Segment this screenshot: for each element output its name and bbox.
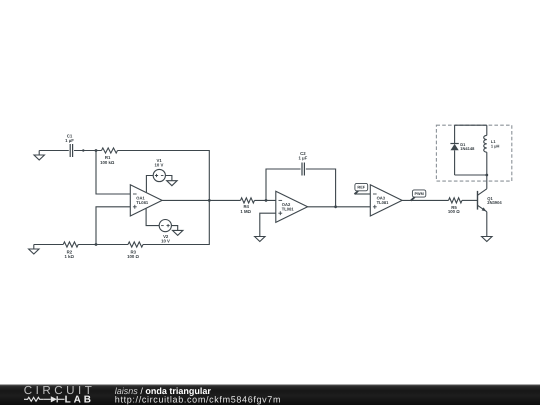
resistor R5	[448, 198, 462, 214]
wire (OA2 non-inverting input to ground)	[260, 213, 276, 236]
svg-text:TL081: TL081	[136, 200, 149, 205]
transistor Q1	[478, 189, 503, 212]
ground	[29, 245, 39, 255]
svg-text:1 µF: 1 µF	[65, 138, 74, 143]
net flag REF	[355, 183, 368, 194]
op-amp OA2	[276, 191, 308, 222]
ground	[173, 230, 183, 235]
wire (R5 to Q1 base)	[462, 199, 478, 201]
wire (C2 to OA2 output)	[306, 169, 336, 207]
wire (junction down to OA1 inverting input)	[96, 151, 130, 195]
svg-text:1 MΩ: 1 MΩ	[240, 209, 251, 214]
svg-text:100 Ω: 100 Ω	[127, 254, 139, 259]
resistor R4	[240, 198, 254, 214]
wire (box bottom: D1 to L1/collector node)	[455, 174, 487, 176]
wire (R1 to feedback corner)	[118, 151, 210, 201]
svg-text:100 kΩ: 100 kΩ	[100, 160, 115, 165]
node (OA2 output junction)	[334, 205, 337, 208]
node (OA1 output junction)	[208, 199, 211, 202]
ground	[167, 181, 177, 186]
svg-text:TL081: TL081	[282, 207, 295, 212]
inductor L1	[484, 125, 500, 175]
svg-text:REF: REF	[357, 185, 365, 190]
op-amp OA1	[130, 185, 162, 216]
wire (R4 to OA2 inverting input)	[255, 199, 276, 201]
wire (OA2 output to OA3 non-inverting input)	[308, 206, 371, 208]
wire	[74, 150, 102, 152]
op-amp OA3	[370, 185, 402, 216]
svg-text:PWM: PWM	[414, 192, 423, 196]
svg-text:1N4148: 1N4148	[460, 146, 475, 151]
subcircuit highlight box (dashed)	[436, 125, 511, 181]
svg-text:10 V: 10 V	[154, 163, 163, 168]
voltage source V1	[153, 158, 165, 181]
resistor R2	[63, 242, 78, 259]
svg-text:LAB: LAB	[65, 395, 94, 405]
wire (emitter down to ground)	[486, 212, 488, 237]
svg-text:R4: R4	[243, 204, 249, 209]
wire (OA1 output to R4)	[162, 199, 240, 201]
wire (OA1 non-inverting input down to R2/R3 junction)	[96, 207, 130, 245]
wire (box top: D1 to L1)	[455, 124, 487, 126]
svg-text:1 µF: 1 µF	[299, 156, 308, 161]
svg-text:http://circuitlab.com/ckfm5846: http://circuitlab.com/ckfm5846fgv7m	[115, 395, 281, 405]
node (D1/L1/collector junction)	[485, 174, 488, 177]
wire	[39, 150, 69, 152]
svg-text:TL081: TL081	[377, 200, 390, 205]
CircuitLab logo symbol (resistor + diode)	[24, 396, 65, 402]
wire (REF flag to OA3 inverting input)	[355, 193, 371, 195]
node (C1/R1/op-amp inverting input junction)	[95, 149, 98, 152]
resistor R3	[127, 242, 143, 259]
wire	[78, 244, 128, 246]
capacitor C2	[299, 151, 308, 176]
wire (OA1 positive supply pin to V1)	[146, 176, 153, 193]
svg-text:100 Ω: 100 Ω	[448, 209, 460, 214]
node (R2/R3/non-inverting input junction)	[95, 243, 98, 246]
ground	[34, 151, 44, 161]
svg-text:1 kΩ: 1 kΩ	[64, 254, 74, 259]
wire	[165, 176, 172, 181]
wire	[171, 226, 177, 231]
net flag PWM	[411, 190, 426, 201]
svg-text:1 µH: 1 µH	[491, 144, 500, 149]
wire	[34, 244, 63, 246]
wire (OA3 output to R5)	[402, 199, 448, 201]
capacitor C1	[65, 133, 74, 157]
wire (OA1 negative supply pin to V2)	[146, 209, 159, 226]
wire (collector up to D1/L1 node)	[486, 175, 488, 189]
resistor R1	[100, 148, 117, 165]
wire (feedback up and over)	[266, 169, 301, 200]
wire (R3 to OA1 output junction)	[143, 200, 209, 244]
svg-text:10 V: 10 V	[161, 239, 170, 244]
node (C1 terminal dot)	[82, 149, 84, 151]
ground	[255, 237, 265, 242]
diode D1	[450, 125, 475, 175]
svg-text:2N3904: 2N3904	[487, 200, 502, 205]
node (OA2 inverting input / C2 feedback junction)	[265, 199, 268, 202]
voltage source V2	[159, 220, 171, 244]
ground	[482, 237, 492, 242]
